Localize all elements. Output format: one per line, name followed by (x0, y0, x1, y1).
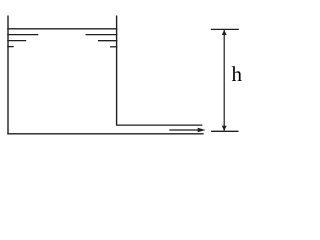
svg-text:h: h (232, 62, 243, 86)
water surface line (7, 28, 117, 30)
water hatch left 1 (7, 34, 38, 36)
outlet pipe top line (116, 124, 202, 126)
dimension line vertical (223, 30, 225, 131)
water hatch right 3 (110, 46, 117, 48)
tank right wall (116, 16, 118, 126)
water hatch right 1 (86, 34, 118, 36)
dimension arrow head up (222, 30, 227, 35)
tank left wall (7, 16, 9, 135)
dimension extension tick top (211, 28, 239, 30)
water hatch left 2 (7, 40, 26, 42)
water hatch right 2 (98, 40, 117, 42)
tank bottom / outlet pipe bottom line (7, 133, 203, 135)
flow arrow shaft (169, 129, 199, 131)
dimension arrow head down (222, 126, 227, 131)
water hatch left 3 (7, 46, 13, 48)
flow arrow head (198, 128, 206, 133)
dimension extension tick bottom (211, 130, 238, 132)
